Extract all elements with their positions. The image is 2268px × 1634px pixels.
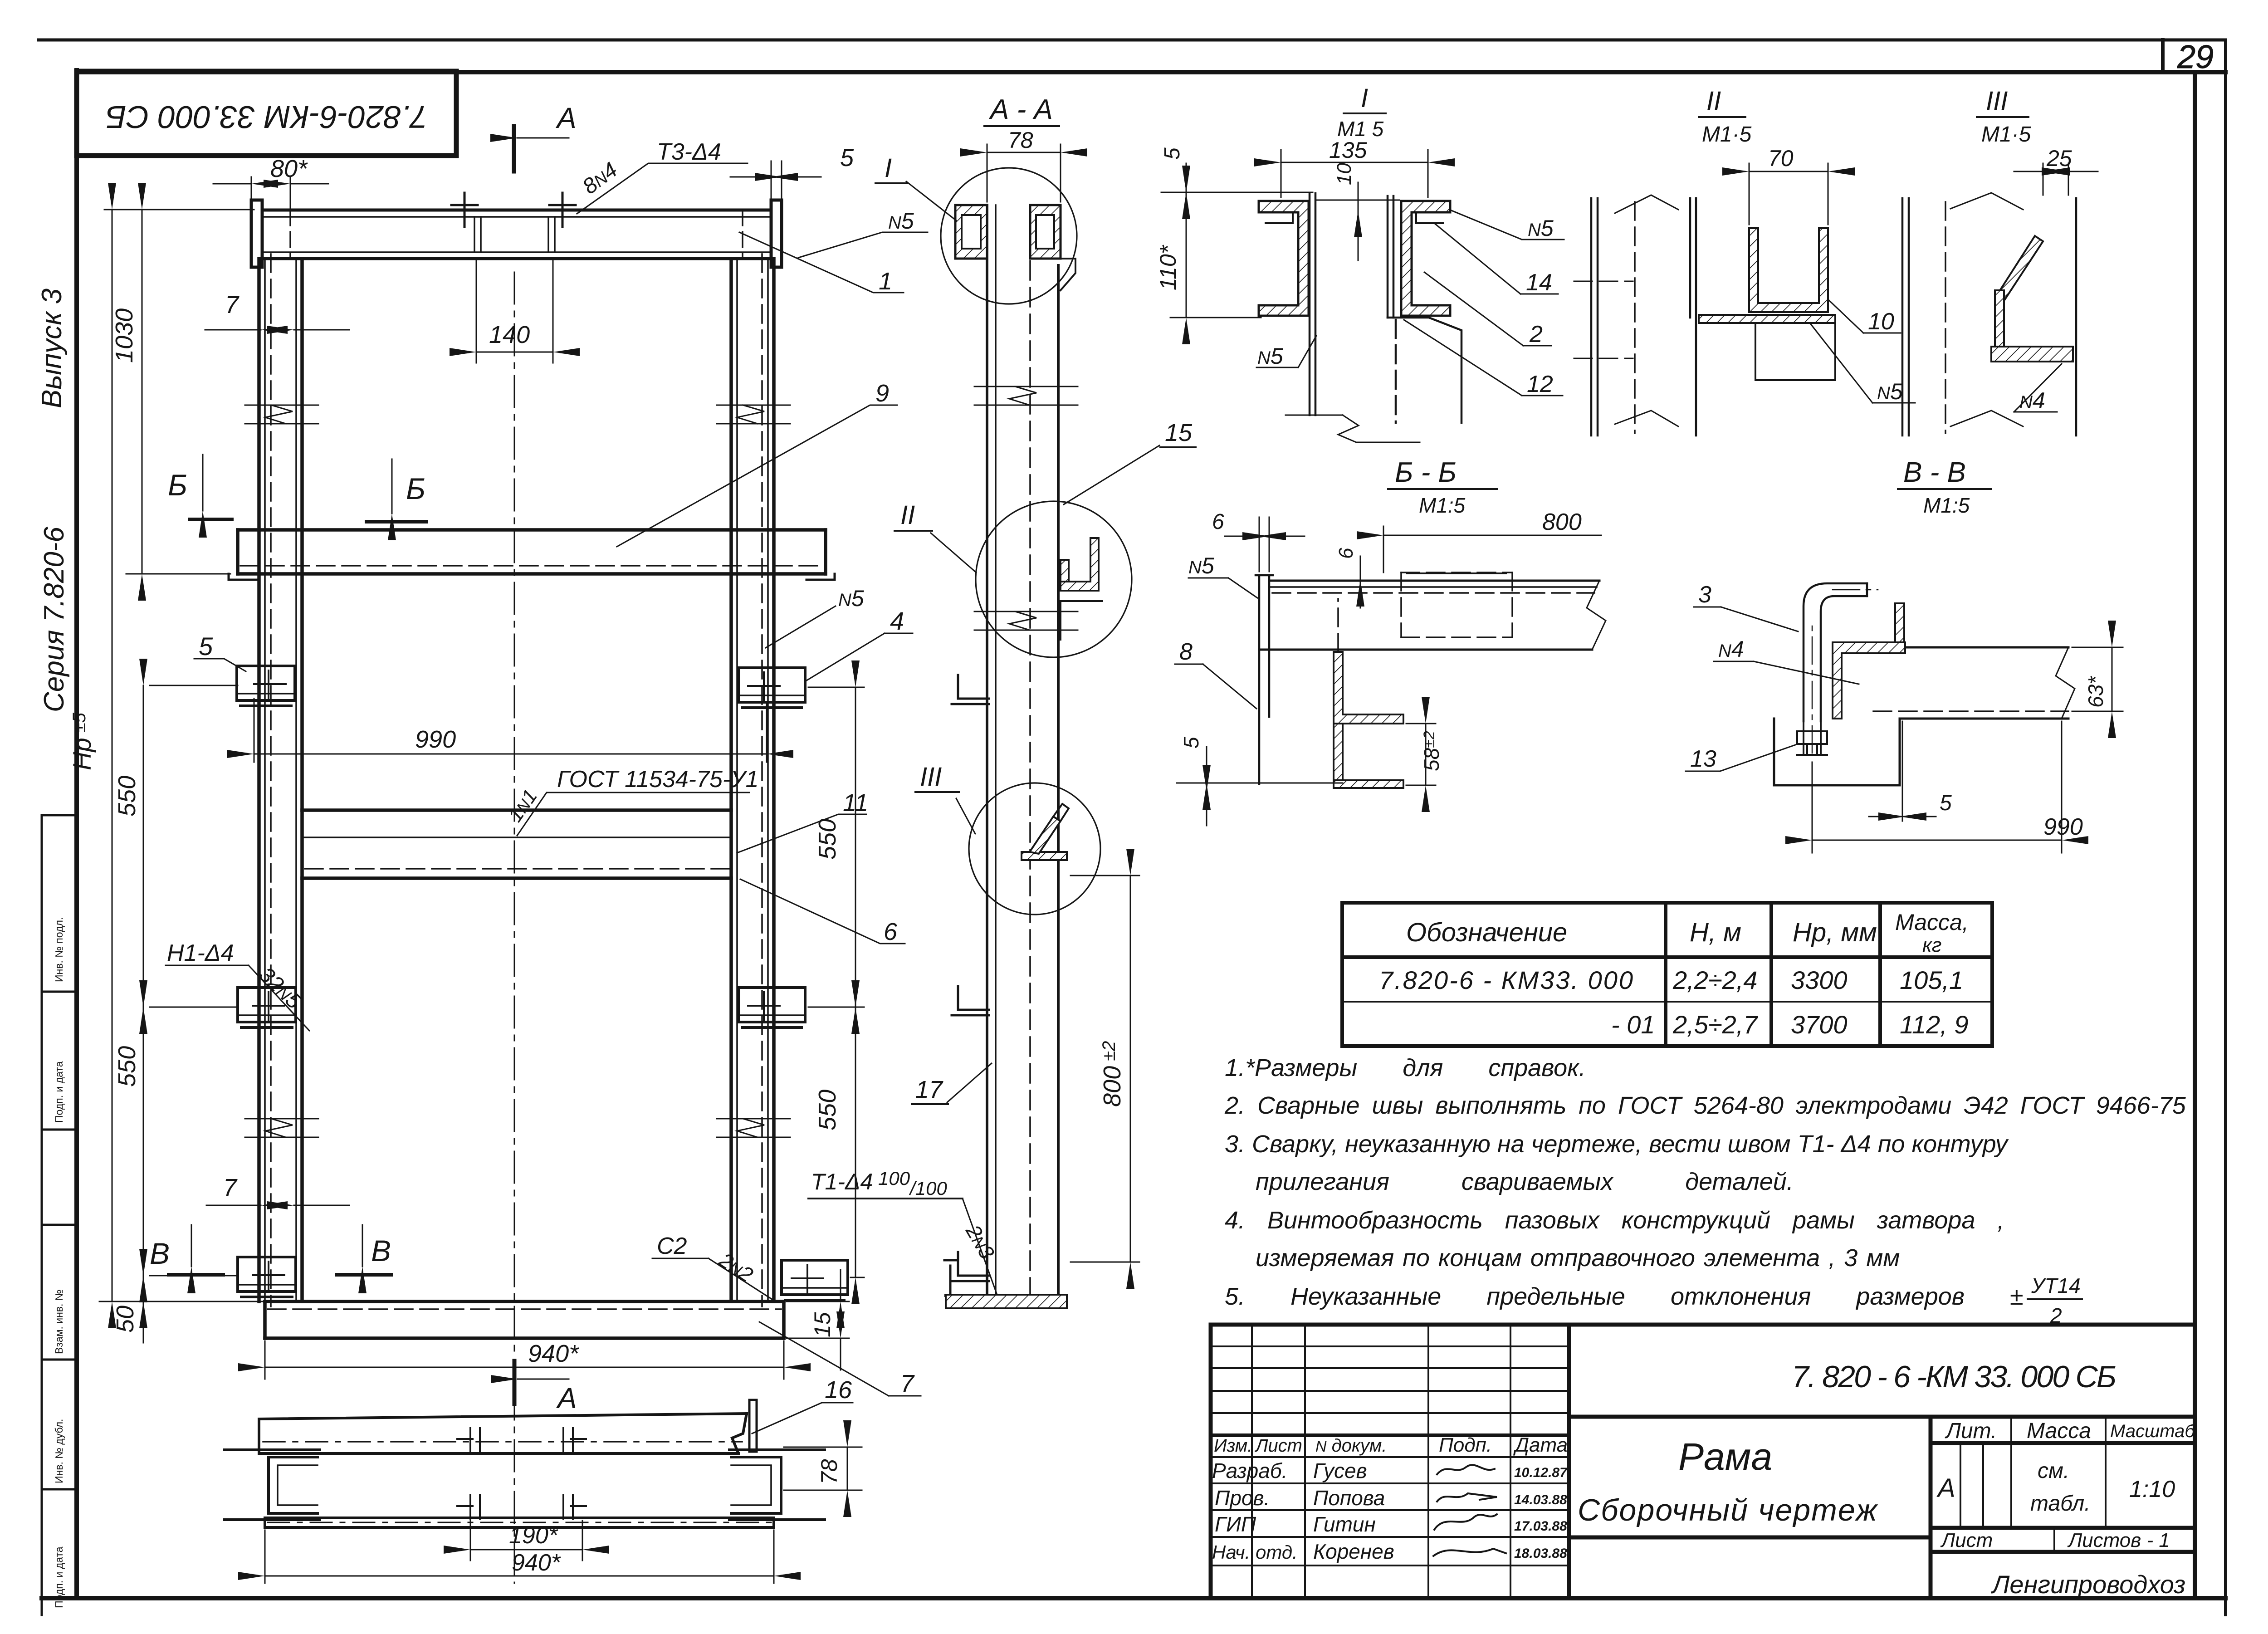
detail II support plate N5 [1699,315,1835,323]
svg-text:Б: Б [168,468,187,502]
label 1 [739,232,904,293]
B-B horizontal beam [1259,581,1599,650]
svg-text:кг: кг [1922,934,1941,956]
label 5 (clamp) [194,659,246,671]
svg-text:10.12.87: 10.12.87 [1514,1465,1568,1480]
dimension 940* [265,1341,784,1379]
svg-text:110*: 110* [1155,245,1181,290]
svg-text:10: 10 [1333,163,1355,185]
dimension 550 lower left [143,1007,238,1276]
svg-text:990: 990 [415,726,456,753]
svg-text:I: I [885,153,892,183]
svg-text:III: III [1986,86,2008,116]
V-V label N4 [1714,661,1859,684]
svg-text:Изм.: Изм. [1214,1436,1252,1456]
svg-text:7. 820 - 6 -КМ 33. 000 СБ: 7. 820 - 6 -КМ 33. 000 СБ [1792,1360,2116,1394]
left table rows [1211,1346,1569,1566]
svg-text:2. Сварные швы выполнять по ГО: 2. Сварные швы выполнять по ГОСТ 5264-80… [1224,1092,2186,1119]
detail II lower box [1755,323,1835,380]
item 16 end tab [749,1400,757,1452]
dimension 70 [1749,163,1828,225]
svg-text:2: 2 [1529,321,1543,347]
V-V angle bracket N4 [1833,642,1905,719]
left margin faint stamp text [53,917,65,1608]
clamp row3 right [782,1260,848,1300]
dimension 140 [476,259,553,363]
svg-text:14: 14 [1526,269,1552,296]
svg-text:II: II [1706,86,1721,116]
detail circle II [976,501,1132,657]
detail II labels [1810,299,1915,403]
svg-text:В: В [150,1237,170,1270]
svg-text:Лит.: Лит. [1945,1419,1997,1443]
svg-text:Дата: Дата [1513,1434,1568,1456]
weld ticks on bottom plate [457,1495,586,1519]
page number cell [2161,40,2165,72]
svg-text:измеряемая по концам отправочн: измеряемая по концам отправочного элемен… [1256,1244,1900,1272]
A-A top beam cut right piece [1030,205,1075,290]
svg-text:Гусев: Гусев [1313,1459,1367,1482]
svg-text:990: 990 [2043,814,2083,840]
svg-text:3: 3 [1698,582,1711,608]
svg-text:4. Винтообразность пазовых кон: 4. Винтообразность пазовых конструкций р… [1225,1207,2004,1234]
svg-text:Масса,: Масса, [1895,910,1969,935]
svg-text:Инв. № подл.: Инв. № подл. [53,917,65,982]
svg-text:3300: 3300 [1791,966,1848,994]
signature scribbles [1433,1465,1506,1556]
svg-text:Коренев: Коренев [1313,1540,1394,1563]
svg-text:15: 15 [810,1312,835,1337]
left column (channel) [259,259,302,1301]
svg-text:7: 7 [223,1174,238,1201]
V-V hook item 3 [1804,583,1867,721]
left table columns [1252,1325,1510,1598]
svg-text:Б - Б: Б - Б [1395,457,1457,488]
label 11 [737,814,866,853]
label 16 leader [752,1403,853,1433]
svg-text:А: А [556,1382,577,1414]
detail circle III [969,783,1100,915]
svg-text:В - В: В - В [1903,457,1966,488]
svg-text:550: 550 [113,1046,141,1087]
svg-text:9: 9 [875,380,889,407]
svg-text:3700: 3700 [1791,1010,1848,1039]
svg-text:Подп.: Подп. [1439,1434,1492,1456]
B-B left wall plate [1256,575,1273,784]
svg-text:17: 17 [915,1076,943,1103]
svg-text:7: 7 [225,291,240,318]
detail II bracket item 10 [1749,228,1828,312]
svg-text:5: 5 [840,144,854,171]
dimension 5 (top right) [730,161,821,200]
V-V beam right [1900,647,2068,719]
svg-text:12: 12 [1527,371,1553,397]
section mark V(В) right [362,1225,363,1267]
table header row [1406,910,1969,956]
item hook in circle III [1022,804,1069,860]
beam item 9 [238,530,826,574]
dimension 800+-2 [1070,876,1139,1262]
dimension 6 (B-B top left) [1225,517,1305,572]
detail II column [1591,198,1696,435]
svg-text:А: А [1936,1473,1955,1503]
dimension 135 [1281,150,1428,197]
B-B label 8 [1175,664,1256,709]
detail I left channel section [1259,201,1309,316]
detail I web shoe below [1388,318,1461,423]
right end channel cap [729,1450,825,1520]
svg-text:табл.: табл. [2030,1492,2091,1516]
svg-text:Масштаб: Масштаб [2110,1421,2195,1441]
svg-text:7: 7 [900,1370,915,1397]
svg-text:Пров.: Пров. [1215,1486,1270,1510]
svg-text:Масса: Масса [2027,1419,2091,1443]
svg-text:5: 5 [1179,737,1203,749]
section mark A top [512,126,516,171]
top-left inverted stamp box [77,71,456,156]
V-V label 3 [1694,607,1798,631]
svg-text:8: 8 [1179,639,1193,665]
svg-text:940*: 940* [512,1550,561,1576]
svg-text:N докум.: N докум. [1315,1436,1387,1456]
table row 2 [1611,1010,1969,1039]
svg-text:М1:5: М1:5 [1419,494,1466,517]
svg-text:63*: 63* [2084,675,2107,708]
B-B lower bracket (hatched) [1334,652,1403,724]
section mark B(Б) left [202,455,204,511]
dimension 10 (detail I) [1358,182,1359,210]
dimension Hp+-5 (overall) [99,210,265,1301]
svg-text:3. Сварку, неуказанную на черт: 3. Сварку, неуказанную на чертеже, вести… [1225,1130,2009,1158]
svg-text:1:10: 1:10 [2129,1476,2175,1502]
svg-text:14.03.88: 14.03.88 [1514,1492,1567,1507]
dimension 800 (B-B) [1383,526,1601,572]
dimension 940* bottom [265,1530,774,1583]
clamp row3 left [238,1257,296,1297]
svg-text:1.*Размеры для справок.: 1.*Размеры для справок. [1225,1054,1586,1081]
dimension 25 [2014,163,2098,195]
svg-text:29: 29 [2177,39,2214,75]
svg-text:В: В [371,1234,391,1267]
dimension 550 upper left [143,685,238,1007]
dimension 7 top [205,329,349,331]
bottom view top plate [259,1414,747,1453]
dimension 6 (B-B middle) [1360,556,1361,580]
svg-text:112, 9: 112, 9 [1900,1010,1969,1039]
svg-text:Сборочный чертеж: Сборочный чертеж [1578,1493,1878,1527]
svg-text:прилегания свариваемых деталей: прилегания свариваемых деталей. [1256,1168,1794,1195]
detail circle I [941,168,1077,304]
svg-text:ГОСТ 11534-75-У1: ГОСТ 11534-75-У1 [557,766,758,793]
svg-text:Подп. и дата: Подп. и дата [53,1061,65,1123]
svg-text:Нр, мм: Нр, мм [1793,918,1877,947]
svg-text:80*: 80* [270,155,308,182]
dimension 50 [143,1276,144,1301]
section mark V(В) left [191,1225,192,1267]
svg-text:Б: Б [406,472,425,505]
svg-text:5: 5 [1940,791,1952,815]
centre axis [514,272,515,1356]
svg-text:50: 50 [112,1306,139,1333]
label N5 top right [798,232,928,258]
svg-text:13: 13 [1690,746,1716,772]
break marks on columns [245,405,790,1137]
svg-text:940*: 940* [528,1340,579,1367]
svg-text:Н, м: Н, м [1690,918,1741,947]
svg-text:800: 800 [1542,509,1582,535]
weld tick marks on top beam [451,193,576,227]
svg-text:Разраб.: Разраб. [1212,1459,1287,1482]
section mark A bottom [513,1361,517,1404]
svg-text:Выпуск 3: Выпуск 3 [36,289,68,408]
weld label T3-D4 with leader 8N4 [577,163,748,214]
dimension 78 (A-A) [987,144,1061,202]
dimension 5 (detail I) [1186,163,1187,192]
detail III hook strut [1998,236,2043,299]
left angle tabs on A-A [952,675,989,1281]
svg-text:78: 78 [816,1459,842,1484]
svg-text:2,5÷2,7: 2,5÷2,7 [1672,1010,1758,1039]
detail III label N4 [2014,364,2062,412]
A-A top beam cut left piece [955,205,987,259]
svg-text:Попова: Попова [1313,1486,1385,1510]
bottom view centre axis [514,1388,515,1583]
svg-text:105,1: 105,1 [1900,966,1963,994]
label 9 [617,405,897,547]
A-A bottom end plate [944,1260,1067,1308]
svg-text:7.820-6-КМ 33.000 СБ: 7.820-6-КМ 33.000 СБ [106,99,428,135]
svg-text:16: 16 [825,1376,852,1404]
A-A column channel (side) [987,205,1058,1296]
svg-text:2,2÷2,4: 2,2÷2,4 [1672,966,1757,994]
detail I labels N5 14 2 12 [1256,210,1564,396]
dimension 63* [2072,647,2123,711]
label 7 leader [759,1322,921,1396]
svg-text:6: 6 [884,918,898,945]
detail III column [1902,198,2076,435]
B-B hidden pad (dashed rect) [1401,572,1512,637]
svg-text:Нач. отд.: Нач. отд. [1212,1541,1298,1563]
dimension 110* [1170,192,1261,318]
detail I top reference lines [1161,192,1313,193]
label N5 mid right [766,606,836,648]
table frame [1342,903,1992,1046]
dimension 15 right [787,1270,849,1370]
svg-text:Обозначение: Обозначение [1406,918,1567,947]
svg-text:С2: С2 [657,1233,687,1259]
svg-text:140: 140 [489,321,530,348]
B-B label N5 [1188,578,1257,598]
svg-text:550: 550 [814,1090,841,1130]
V-V bottom plate with bolt item 13 [1774,719,1900,785]
bottom plate of bottom view [265,1518,774,1527]
dimension 190* [470,1521,582,1561]
title block texts [1212,1434,1568,1563]
item 10 bracket in circle II [1061,538,1102,640]
section mark B(Б) right [391,459,393,514]
dimension 990 (front view) [254,699,767,762]
svg-text:Лист: Лист [1254,1436,1302,1456]
dimension 78 [784,1447,862,1490]
detail I break [1286,415,1420,442]
dimension 5 (V-V) [1869,721,1936,821]
left end channel cap [225,1450,320,1520]
svg-text:Инв. № дубл.: Инв. № дубл. [53,1419,65,1483]
svg-text:135: 135 [1329,137,1367,163]
label 6 [740,879,905,944]
dimension 7 bottom [206,1205,349,1206]
title block outer frame [1211,1325,2195,1598]
dimension 990 [1812,721,2062,853]
lit/massa/masshtab dividers [1960,1417,2106,1552]
svg-text:1030: 1030 [111,308,138,363]
weld label GOST [517,793,749,836]
svg-text:Рама: Рама [1678,1435,1772,1478]
svg-text:Н1-Δ4: Н1-Δ4 [167,940,234,966]
clamp row2 left [238,988,296,1027]
label H1-D4 / 32N5 [166,965,309,1031]
dimension 5 (B-B bottom) [1177,783,1343,784]
clamp row1 right item 4 [739,668,805,708]
svg-text:78: 78 [1008,127,1033,153]
dimension 550 lower right [850,1007,864,1277]
svg-text:I: I [1361,83,1368,113]
dimension 550 upper right [808,687,864,1007]
svg-text:Взам. инв. №: Взам. инв. № [53,1290,65,1355]
svg-text:УТ14: УТ14 [2031,1274,2081,1297]
svg-text:17.03.88: 17.03.88 [1514,1519,1567,1534]
lit massa masshtab [1936,1419,2195,1599]
svg-text:Лист: Лист [1940,1529,1993,1551]
svg-text:25: 25 [2046,146,2072,171]
dimension 80* [213,177,328,210]
svg-text:5: 5 [1160,147,1184,160]
svg-text:6: 6 [1212,510,1224,534]
clamp row2 right [739,988,805,1027]
detail III bottom plate [1991,347,2073,362]
left margin riser column [42,815,77,1615]
svg-text:10: 10 [1868,308,1894,335]
svg-text:550: 550 [814,819,841,860]
page right outer border [2224,40,2227,1615]
drawing name [1578,1435,1878,1527]
detail I column flange plates [1310,193,1393,415]
svg-text:М1·5: М1·5 [1702,122,1752,147]
svg-text:190*: 190* [509,1522,558,1549]
svg-text:М1:5: М1:5 [1923,494,1970,517]
break marks on A-A column [974,386,1078,630]
top beam item 1 [251,200,782,267]
detail I right channel section [1401,201,1450,316]
svg-text:см.: см. [2038,1459,2069,1483]
V-V label 13 [1686,745,1795,771]
svg-text:III: III [920,762,942,792]
bottom beam item 7 [265,1301,784,1338]
dimension 58+-2 [1406,724,1436,785]
svg-text:15: 15 [1165,419,1193,446]
svg-text:5: 5 [199,632,213,660]
svg-text:А: А [555,102,577,134]
svg-text:1: 1 [879,268,892,295]
svg-text:Т3-Δ4: Т3-Δ4 [657,139,721,165]
weld ticks on top plate [457,1428,586,1452]
label 4 (clamp) [805,633,913,681]
note 5 fraction UT14/2 [2031,1274,2081,1327]
svg-text:18.03.88: 18.03.88 [1514,1546,1567,1561]
svg-text:6: 6 [1335,548,1357,559]
svg-text:М1·5: М1·5 [1981,122,2031,147]
svg-text:А - А: А - А [988,94,1053,125]
svg-text:550: 550 [113,776,141,817]
svg-text:70: 70 [1768,146,1794,171]
svg-text:Гитин: Гитин [1313,1512,1376,1536]
svg-text:Подп. и дата: Подп. и дата [53,1546,65,1608]
svg-text:II: II [900,500,915,530]
drawing sheet outer top border [39,39,2225,42]
dimension 1030 [126,210,230,574]
svg-text:5. Неуказанные предельные откл: 5. Неуказанные предельные отклонения раз… [1225,1283,2024,1310]
clamp row1 left item 5 [237,666,295,706]
svg-text:- 01: - 01 [1611,1010,1655,1039]
middle welded beam items 11/6 [302,810,731,878]
right column (channel) [731,259,774,1301]
svg-text:Серия 7.820-6: Серия 7.820-6 [39,527,70,712]
svg-text:Ленгипроводхоз: Ленгипроводхоз [1991,1570,2185,1599]
label C2 2N2 [652,1258,775,1301]
svg-text:Листов - 1: Листов - 1 [2067,1529,2170,1551]
svg-text:ГИП: ГИП [1215,1512,1256,1536]
table row 1 [1379,966,1963,994]
svg-text:4: 4 [890,607,904,635]
